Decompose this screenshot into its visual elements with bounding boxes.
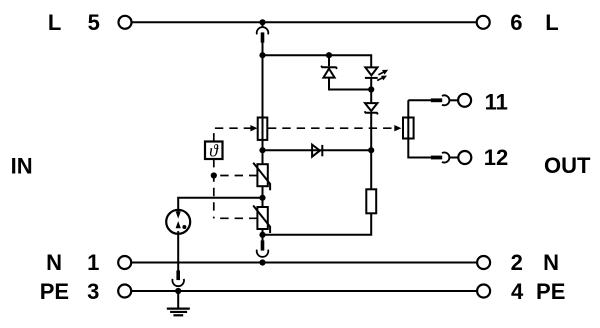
terminal 3 (118, 285, 131, 298)
junction dot J7 varistor bottom (259, 232, 265, 238)
LED arrow 1 (378, 70, 388, 75)
thermal disconnect top: bar (261, 32, 265, 42)
thermal disconnect GDT: arc (172, 279, 184, 286)
svg-text:6: 6 (510, 10, 522, 35)
svg-text:L: L (48, 10, 61, 35)
junction dot J1 L line (259, 19, 265, 25)
thermal disconnect top: arc (257, 27, 269, 34)
thermal sensor theta glyph (210, 144, 219, 156)
zener diode D2 (365, 103, 378, 114)
fuse F2 (403, 100, 414, 138)
junction dot J5 led bottom (368, 86, 374, 92)
LED D1 (365, 67, 378, 78)
thermal disconnect bottom: bar (261, 240, 265, 250)
svg-text:2: 2 (511, 250, 523, 275)
junction dot J8 N line (259, 259, 265, 265)
thermal sensor box (205, 142, 223, 160)
wire bar to J2 (262, 43, 264, 56)
contact 11 socket arc (442, 95, 449, 105)
svg-text:N: N (543, 250, 559, 275)
spark gap GDT circle (166, 210, 190, 234)
junction dot PE line (175, 288, 181, 294)
terminal 6 (477, 16, 490, 29)
dashed F1 to F2 (268, 127, 395, 129)
junction dot J4 (259, 147, 265, 153)
wire center vertical top (262, 22, 264, 27)
junction dot diode line right (368, 147, 374, 153)
resistor R1 (366, 189, 376, 213)
contact 11 pin (431, 98, 442, 102)
LED arrow 2 (377, 76, 387, 81)
wire GDT branch horizontal (178, 198, 262, 210)
terminal 1 (118, 256, 131, 269)
wire GDT bottom to disconnect (177, 234, 179, 271)
wire D2 to J5 (370, 113, 372, 189)
svg-text:11: 11 (485, 89, 508, 114)
contact 12 pin (431, 156, 442, 160)
varistor V2 (253, 206, 270, 234)
thermal disconnect bottom: arc (257, 250, 269, 257)
terminal 4 (477, 285, 490, 298)
arrow into F2 (394, 125, 401, 131)
wire J2 to fuse F1 (262, 55, 264, 117)
terminal 5 (119, 16, 132, 29)
wire socket to terminal 12 (449, 157, 458, 159)
fuse F1 (258, 118, 268, 140)
terminal 2 (477, 256, 490, 269)
spark gap arrow down (176, 210, 181, 219)
arrow into F1 (250, 125, 257, 131)
junction dot J3 zener top (326, 52, 332, 58)
diode D3 (312, 145, 322, 157)
wire N line (132, 262, 477, 264)
dashed theta to arrow F1 (214, 128, 251, 141)
svg-text:5: 5 (88, 10, 100, 35)
thermal disconnect GDT: bar (176, 271, 180, 281)
svg-text:N: N (46, 250, 62, 275)
dashed theta down (213, 159, 215, 218)
zener diode Z1 (321, 66, 337, 78)
wire LED to dot (370, 78, 372, 103)
svg-text:1: 1 (87, 250, 99, 275)
svg-text:12: 12 (484, 145, 508, 170)
terminal 11 (458, 94, 471, 107)
ground symbol (167, 309, 190, 316)
wire zener Z1 stub (328, 55, 330, 66)
junction dot J2 (259, 52, 265, 58)
contact 12 socket arc (442, 153, 449, 163)
svg-text:L: L (545, 10, 558, 35)
wire L line (132, 21, 476, 23)
wire middle diode line (263, 149, 372, 151)
svg-text:3: 3 (87, 279, 99, 304)
svg-text:PE: PE (40, 279, 69, 304)
wire socket to terminal 11 (449, 99, 458, 101)
dashed junction dot (211, 172, 217, 178)
wire top branch horizontal (263, 55, 372, 67)
dashed to varistor V1 (214, 175, 258, 177)
wire through F1 to J4 (262, 118, 264, 165)
varistor V1 (253, 163, 270, 191)
junction dot J6 varistor mid (259, 195, 265, 201)
svg-text:4: 4 (511, 279, 524, 304)
wire Z1 bottom to LED bottom rail (329, 78, 371, 90)
dashed to varistor V2 (214, 217, 258, 219)
svg-text:OUT: OUT (544, 153, 591, 178)
svg-text:IN: IN (11, 153, 33, 178)
wire V2 to J7 (262, 229, 264, 240)
terminal 12 (458, 151, 471, 164)
wire PE dot to ground (177, 291, 179, 309)
wire PE line (132, 290, 477, 292)
spark gap arrow up (176, 221, 181, 234)
wire contact 12 (408, 139, 431, 158)
wire contact 11 (408, 99, 431, 101)
spark gap trigger dot (182, 225, 186, 229)
wire V1 to V2 (262, 186, 264, 207)
svg-text:PE: PE (536, 279, 565, 304)
wire R1 bottom to return (263, 213, 372, 235)
dashed control lines (214, 128, 395, 218)
